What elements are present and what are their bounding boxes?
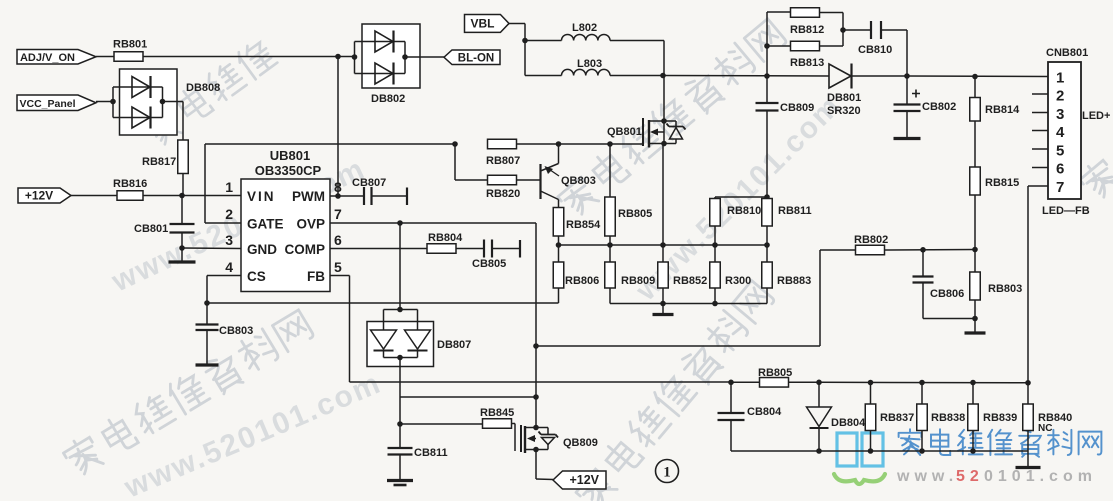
QB809 middle arrow bbox=[527, 435, 536, 442]
svg-text:4: 4 bbox=[1056, 124, 1065, 141]
junction bank R300 bottom bbox=[712, 301, 718, 307]
svg-text:1: 1 bbox=[1056, 70, 1064, 87]
logo CJK title bbox=[899, 429, 1102, 457]
node VBL bbox=[465, 15, 510, 33]
svg-text:CB806: CB806 bbox=[930, 288, 964, 300]
ground below RB852 bbox=[653, 304, 674, 315]
svg-text:QB809: QB809 bbox=[563, 437, 598, 449]
DB808 right rail bbox=[162, 87, 164, 118]
QB809 source lead bbox=[525, 449, 548, 451]
wire RB854 to sense bus bbox=[558, 236, 560, 245]
resistor RB805 bbox=[605, 197, 653, 236]
junction CB810 tap bbox=[840, 27, 846, 33]
svg-text:OVP: OVP bbox=[296, 217, 325, 232]
junction boost node bbox=[660, 73, 666, 79]
DB807 bottom rail bbox=[384, 351, 418, 358]
capacitor CB807 bbox=[352, 177, 386, 205]
capacitor CB810 bbox=[858, 21, 892, 56]
svg-text:RB802: RB802 bbox=[854, 234, 888, 246]
junction RB838 top bbox=[919, 380, 925, 386]
QB803 label with leader arrow bbox=[545, 166, 596, 187]
logo green brace bbox=[834, 474, 885, 484]
CNB801 pin 7 bbox=[1056, 179, 1064, 196]
marker circled 1 bbox=[656, 460, 679, 483]
wire RB807 right bbox=[516, 143, 643, 145]
junction FB divider node bbox=[972, 247, 978, 253]
junction rail DB804 bbox=[816, 448, 822, 454]
QB801 drain-source tie bbox=[663, 121, 665, 144]
junction sense RB806 bbox=[556, 242, 562, 248]
wire bus DB804 to RB840 bbox=[819, 381, 1028, 384]
svg-text:L803: L803 bbox=[577, 58, 602, 70]
resistor R300 bbox=[710, 245, 752, 304]
svg-text:RB801: RB801 bbox=[113, 39, 147, 51]
resistor RB813 bbox=[790, 41, 824, 69]
resistor RB840 bbox=[1023, 383, 1073, 451]
wire to L802 bbox=[525, 40, 562, 42]
svg-text:CB802: CB802 bbox=[922, 101, 956, 113]
wire RB845 to gate bbox=[511, 424, 515, 452]
junction VIN node bbox=[179, 193, 185, 199]
QB801 source lead bbox=[649, 143, 676, 145]
svg-text:DB801: DB801 bbox=[827, 92, 861, 104]
svg-text:5: 5 bbox=[334, 259, 342, 275]
svg-text:RB820: RB820 bbox=[486, 188, 520, 200]
logo url www bbox=[896, 468, 958, 485]
logo url 52 bbox=[956, 468, 984, 485]
diode pair DB802 box bbox=[362, 24, 420, 105]
junction CB804 top bbox=[728, 380, 734, 386]
terminal bar after CB807 bbox=[406, 188, 408, 206]
U801 pin name COMP bbox=[285, 242, 326, 257]
wire VCC_Panel to DB808 bbox=[96, 101, 113, 103]
junction DB804 top bbox=[816, 380, 822, 386]
U801 pin name VIN bbox=[247, 189, 276, 204]
wire OVP tap down to DB807 bbox=[399, 223, 401, 310]
DB808 top diode bbox=[113, 76, 163, 98]
U801 pin name CS bbox=[247, 269, 266, 284]
watermark url center-right bbox=[629, 89, 848, 308]
resistor RB807 bbox=[486, 139, 520, 167]
svg-text:2: 2 bbox=[225, 206, 233, 222]
QB801 body diode bbox=[667, 121, 686, 144]
junction rail RB838 bbox=[919, 448, 925, 454]
resistor RB815 bbox=[970, 167, 1020, 195]
wire L803 to boost node bbox=[610, 75, 663, 77]
DB808 bottom diode bbox=[113, 107, 163, 129]
junction PWM pin 8 bbox=[335, 193, 341, 199]
node +12V bottom bbox=[553, 471, 606, 489]
DB807 left diode bbox=[371, 330, 397, 351]
wire RB820 to QB803 base bbox=[516, 179, 541, 181]
svg-text:DB808: DB808 bbox=[186, 82, 220, 94]
junction CB806 top bbox=[920, 247, 926, 253]
junction DB808 right bbox=[160, 99, 166, 105]
svg-text:+12V: +12V bbox=[25, 189, 53, 203]
wire CB801 to GND node bbox=[181, 233, 183, 249]
svg-text:UB801: UB801 bbox=[270, 148, 310, 163]
junction GND node bbox=[179, 245, 185, 251]
wire GATE riser up bbox=[204, 144, 206, 223]
junction QB803 collector node bbox=[556, 141, 562, 147]
wire CB802 node right bbox=[907, 75, 1048, 78]
resistor RB838 bbox=[917, 383, 966, 452]
svg-text:DB802: DB802 bbox=[371, 93, 405, 105]
capacitor CB803 bbox=[196, 303, 254, 337]
CNB801 pin 6 stub bbox=[1032, 167, 1048, 169]
wire VIN node to CB801 bbox=[181, 196, 183, 225]
CNB801 pin 3 bbox=[1056, 106, 1064, 123]
wire GND node to chip pin 3 bbox=[182, 247, 241, 250]
wire RB816 to VIN pin 1 bbox=[143, 195, 241, 197]
wire OVP pin 7 bbox=[330, 222, 536, 224]
svg-text:1: 1 bbox=[225, 179, 233, 195]
diode DB804 bbox=[807, 382, 867, 451]
resistor RB820 bbox=[486, 175, 520, 200]
transistor QB809 gate bar bbox=[520, 425, 522, 452]
QB809 drain lead bbox=[525, 427, 548, 429]
wire CB805 right bbox=[492, 248, 520, 250]
svg-text:BL-ON: BL-ON bbox=[458, 52, 494, 64]
junction CS node bbox=[204, 300, 210, 306]
svg-text:OB3350CP: OB3350CP bbox=[255, 163, 322, 178]
resistor RB809 bbox=[605, 245, 656, 304]
U801 pin name FB bbox=[307, 269, 325, 284]
svg-text:VIN: VIN bbox=[247, 189, 276, 204]
svg-text:4: 4 bbox=[225, 259, 233, 275]
CNB801 pin 2 bbox=[1056, 88, 1064, 105]
resistor RB852 bbox=[658, 245, 708, 304]
wire RB804 to CB805 bbox=[456, 248, 484, 250]
svg-text:2: 2 bbox=[1056, 88, 1064, 105]
resistor RB883 bbox=[762, 245, 812, 304]
resistor RB805 bottom bbox=[758, 367, 792, 387]
ground below CB801 bbox=[169, 248, 196, 262]
wire FB bus with RB805B bbox=[731, 381, 760, 383]
resistor RB803 bbox=[970, 250, 1023, 319]
diode DB801 SR320 bbox=[827, 64, 861, 118]
junction DB802 left bbox=[352, 54, 358, 60]
junction DB802 right bbox=[402, 54, 408, 60]
diode pair DB808 box bbox=[120, 69, 221, 135]
svg-text:RB805: RB805 bbox=[758, 367, 792, 379]
DB807 right diode bbox=[405, 330, 431, 351]
junction RB805 top node bbox=[607, 141, 613, 147]
wire RB805 top bbox=[609, 144, 611, 197]
junction divider gnd node bbox=[972, 316, 978, 322]
CNB801 pin 5 stub bbox=[1032, 148, 1048, 150]
capacitor CB801 bbox=[134, 223, 195, 235]
capacitor CB805 bbox=[472, 240, 506, 271]
svg-text:www.: www. bbox=[896, 468, 958, 485]
junction DB807 top bbox=[397, 307, 403, 313]
svg-text:RB854: RB854 bbox=[566, 219, 601, 231]
QB801 channel bar bbox=[648, 120, 650, 148]
label LED+ bbox=[1082, 110, 1110, 122]
wire RB815 down bbox=[974, 195, 976, 250]
junction VBL node bbox=[522, 38, 528, 44]
svg-text:QB801: QB801 bbox=[607, 126, 642, 138]
junction RB839 top bbox=[970, 380, 976, 386]
wire sense bus bbox=[559, 244, 768, 246]
junction RB837 top bbox=[868, 380, 874, 386]
svg-text:CB809: CB809 bbox=[780, 102, 814, 114]
junction rail RB839 bbox=[970, 448, 976, 454]
junction QB801 source bbox=[661, 141, 667, 147]
junction rail RB837 bbox=[868, 448, 874, 454]
junction QB809 source bbox=[533, 447, 539, 453]
svg-text:RB804: RB804 bbox=[428, 232, 463, 244]
wire RB805B to DB804 node bbox=[789, 381, 819, 383]
svg-text:GND: GND bbox=[247, 242, 277, 257]
resistor RB817 bbox=[142, 140, 188, 174]
wire riser to RB812 bbox=[767, 11, 791, 13]
pin number 1 bbox=[225, 179, 233, 195]
QB809 channel bar bbox=[524, 426, 526, 453]
wire resistor-bank bottom rail bbox=[610, 303, 767, 305]
svg-text:0101.com: 0101.com bbox=[984, 468, 1097, 485]
wire COMP pin 6 to RB804 bbox=[330, 248, 427, 250]
CNB801 pin 4 stub bbox=[1032, 130, 1048, 132]
U801 pin name GND bbox=[247, 242, 277, 257]
wire +12V to RB816 bbox=[71, 195, 117, 197]
wire CB806 to gnd node bbox=[923, 318, 975, 320]
wire GATE pin 2 to riser bbox=[205, 222, 241, 224]
DB802 left rail bbox=[354, 42, 356, 74]
svg-text:CB804: CB804 bbox=[747, 406, 782, 418]
junction QB801 drain bbox=[661, 118, 667, 124]
junction bank gnd bbox=[660, 301, 666, 307]
DB802 top diode bbox=[355, 31, 406, 53]
ground below CB802 bbox=[894, 137, 921, 140]
capacitor CB802 polarized bbox=[894, 76, 957, 137]
svg-text:52: 52 bbox=[956, 468, 984, 485]
wire RB810 bottom bbox=[714, 226, 716, 245]
svg-text:RB839: RB839 bbox=[983, 412, 1017, 424]
wire gate bus top bbox=[205, 143, 455, 145]
U801 pin name PWM bbox=[292, 189, 325, 204]
capacitor CB804 bbox=[718, 382, 783, 451]
wire RB812 riser bbox=[766, 12, 768, 76]
junction sense R300 bbox=[712, 242, 718, 248]
svg-text:VBL: VBL bbox=[470, 16, 494, 30]
wire RB817 to VIN node bbox=[182, 174, 184, 197]
diode pair DB807 box bbox=[367, 322, 471, 367]
watermark CJK bottom-center bbox=[572, 279, 777, 501]
resistor RB804 bbox=[427, 232, 463, 253]
svg-text:7: 7 bbox=[334, 206, 342, 222]
wire ADJ junction down to PWM pin 8 bbox=[337, 57, 339, 197]
inductor L802 bbox=[562, 22, 611, 41]
wire tap to CB810 bbox=[843, 29, 871, 31]
junction DB807 return bbox=[533, 394, 539, 400]
watermark CJK bottom-left bbox=[61, 307, 316, 480]
svg-text:GATE: GATE bbox=[247, 217, 284, 232]
svg-text:RB806: RB806 bbox=[565, 275, 599, 287]
junction sense RB809 bbox=[607, 242, 613, 248]
node VCC_Panel bbox=[17, 95, 96, 111]
svg-text:RB852: RB852 bbox=[673, 275, 707, 287]
svg-text:NC: NC bbox=[1038, 423, 1052, 434]
svg-text:RB805: RB805 bbox=[618, 208, 652, 220]
DB808 left rail bbox=[112, 87, 114, 118]
junction sense RB852 bbox=[660, 242, 666, 248]
wire CS pin 4 bbox=[207, 276, 241, 304]
logo book icon bbox=[837, 433, 883, 466]
resistor RB839 bbox=[968, 383, 1018, 452]
pin number 2 bbox=[225, 206, 233, 222]
svg-text:FB: FB bbox=[307, 269, 325, 284]
watermark url chip bbox=[106, 152, 370, 299]
transistor QB803 base bar bbox=[539, 164, 541, 199]
svg-text:ADJ/V_ON: ADJ/V_ON bbox=[20, 52, 75, 64]
node ADJ/V_ON bbox=[17, 50, 96, 65]
wire ADJ/V_ON to RB801 bbox=[96, 56, 114, 58]
wire RB813 right bbox=[819, 45, 843, 47]
wire RB812 right bbox=[819, 13, 843, 47]
wire FB bus bbox=[350, 381, 732, 383]
wire RB813 left bbox=[767, 45, 791, 47]
wire RB801 to DB802 bbox=[143, 56, 355, 58]
svg-text:CB807: CB807 bbox=[352, 177, 386, 189]
pin number 5 bbox=[334, 259, 342, 275]
wire PWM pin 8 to CB807 bbox=[330, 195, 364, 197]
wire RB811 bottom bbox=[766, 226, 768, 245]
resistor RB814 bbox=[970, 77, 1020, 122]
junction sense RB883 bbox=[764, 242, 770, 248]
wire DB807 node down bbox=[399, 397, 401, 424]
watermark CJK center bbox=[555, 16, 789, 221]
junction DB808 left bbox=[110, 99, 116, 105]
svg-text:6: 6 bbox=[1056, 161, 1064, 178]
wire VBL down to L803 bbox=[525, 41, 562, 76]
QB803 collector bbox=[541, 144, 559, 171]
svg-text:CB811: CB811 bbox=[414, 447, 448, 459]
wire CS bus to RB806 bbox=[207, 288, 559, 303]
resistor RB812 bbox=[790, 8, 824, 36]
QB801 middle arrow bbox=[650, 129, 664, 136]
wire LED-FB down bbox=[1028, 186, 1032, 383]
resistor RB801 bbox=[113, 39, 147, 62]
CNB801 pin 2 stub bbox=[1032, 93, 1048, 95]
wire QB809 source to +12V bbox=[536, 450, 553, 480]
resistor RB810 bbox=[710, 199, 762, 227]
svg-text:RB813: RB813 bbox=[790, 57, 824, 69]
resistor RB845 bbox=[480, 407, 514, 428]
transistor QB801 gate bar bbox=[642, 118, 644, 146]
inductor L803 bbox=[562, 58, 611, 76]
svg-text:RB803: RB803 bbox=[988, 283, 1022, 295]
svg-text:COMP: COMP bbox=[285, 242, 326, 257]
wire CB810 right bbox=[881, 30, 907, 76]
svg-text:RB838: RB838 bbox=[931, 412, 965, 424]
node BL-ON bbox=[444, 50, 500, 65]
wire tap to RB810 bbox=[715, 197, 767, 199]
resistor RB837 bbox=[865, 383, 914, 452]
ground below CB803 bbox=[196, 330, 219, 365]
resistor RB816 bbox=[113, 178, 147, 200]
pin number 7 bbox=[334, 206, 342, 222]
logo url 0101 bbox=[984, 468, 1097, 485]
svg-text:RB837: RB837 bbox=[880, 412, 914, 424]
U801 pin name OVP bbox=[296, 217, 325, 232]
wire DB801 cathode to CB802 node bbox=[852, 75, 908, 77]
wire CB807 right bbox=[372, 195, 408, 197]
svg-text:RB809: RB809 bbox=[621, 275, 655, 287]
junction CB802 node bbox=[904, 73, 910, 79]
wire DB807 return bbox=[400, 396, 536, 398]
resistor RB811 bbox=[762, 197, 812, 226]
CNB801 pin 4 bbox=[1056, 124, 1065, 141]
junction QB809 drain bbox=[533, 425, 539, 431]
wire OVP turn down bbox=[535, 223, 537, 428]
wire FB riser down bbox=[349, 276, 351, 383]
svg-text:SR320: SR320 bbox=[827, 105, 861, 117]
svg-text:7: 7 bbox=[1056, 179, 1064, 196]
DB807 top rail bbox=[384, 310, 418, 331]
DB802 bottom diode bbox=[355, 63, 406, 85]
svg-text:RB815: RB815 bbox=[985, 177, 1019, 189]
wire RB814 to RB815 bbox=[974, 121, 976, 167]
op-amp U801 OB3350CP body bbox=[241, 148, 330, 292]
svg-text:RB811: RB811 bbox=[778, 205, 812, 217]
junction RB840 top bbox=[1025, 380, 1031, 386]
svg-text:CB805: CB805 bbox=[472, 258, 506, 270]
CNB801 pin 6 bbox=[1056, 161, 1064, 178]
QB801 label bbox=[607, 126, 642, 138]
wire FB pin 5 bbox=[330, 275, 350, 277]
pin number 4 bbox=[225, 259, 233, 275]
junction RB812/CB809 tap bbox=[764, 73, 770, 79]
junction RB802 tap bbox=[533, 343, 539, 349]
svg-text:DB807: DB807 bbox=[437, 339, 471, 351]
wire RB820 tap down bbox=[454, 144, 456, 180]
svg-text:+12V: +12V bbox=[569, 473, 599, 487]
label LED-FB bbox=[1042, 205, 1090, 217]
wire tap to RB802 riser bbox=[536, 250, 820, 346]
svg-text:CB803: CB803 bbox=[219, 325, 253, 337]
svg-text:3: 3 bbox=[1056, 106, 1064, 123]
CNB801 pin 1 bbox=[1056, 70, 1064, 87]
CNB801 pin 3 stub bbox=[1032, 112, 1048, 114]
resistor RB854 bbox=[553, 208, 601, 237]
junction RB810 tap bbox=[764, 194, 770, 200]
svg-text:6: 6 bbox=[334, 232, 342, 248]
svg-text:LED+: LED+ bbox=[1082, 110, 1110, 122]
ground below CB811 bbox=[387, 455, 413, 486]
svg-text:QB803: QB803 bbox=[561, 175, 596, 187]
svg-text:R300: R300 bbox=[725, 275, 751, 287]
ground below RB803 bbox=[965, 319, 986, 334]
CNB801 pin 7 stub bbox=[1032, 185, 1048, 187]
svg-text:PWM: PWM bbox=[292, 189, 325, 204]
wire DB807 bottom lead bbox=[399, 358, 401, 398]
watermark url bottom-left bbox=[119, 366, 386, 501]
DB802 right rail bbox=[404, 42, 406, 74]
svg-text:VCC_Panel: VCC_Panel bbox=[19, 98, 75, 110]
wire drain up to boost node bbox=[663, 76, 665, 122]
QB809 body diode bbox=[539, 428, 559, 450]
QB801 drain lead bbox=[649, 120, 676, 122]
wire L802 to corner bbox=[610, 41, 664, 76]
QB803 emitter bbox=[541, 191, 559, 208]
capacitor CB806 bbox=[913, 250, 965, 319]
junction RB845 node bbox=[397, 421, 403, 427]
svg-text:RB883: RB883 bbox=[777, 275, 811, 287]
wire VBL to corner bbox=[509, 24, 525, 41]
resistor RB802 bbox=[854, 234, 888, 255]
ground at RB840 bbox=[1016, 451, 1041, 468]
